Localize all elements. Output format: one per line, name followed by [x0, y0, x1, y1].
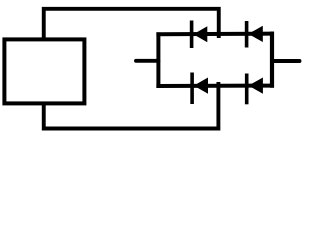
diode D3 (lower-left, pointing left): cathode bar: [190, 73, 194, 105]
diode D3 anode triangle: [194, 78, 208, 94]
wire: right rail of diode bridge: [270, 34, 274, 86]
diode D2 anode triangle: [248, 26, 262, 42]
diode D1 anode triangle: [193, 26, 207, 42]
wire: left rail of diode bridge: [156, 34, 160, 86]
diode D4 anode triangle: [248, 78, 263, 94]
wire: lower branch: [158, 84, 272, 88]
wire: output lead at mid height: [272, 59, 300, 63]
diode D4 (lower-right, pointing left): cathode bar: [245, 74, 249, 105]
component box (left square block): [4, 39, 84, 103]
wire: upper branch: [158, 32, 272, 37]
wire: bottom loop from box bottom, down, right along bottom, up to node between lower diodes: [44, 84, 219, 129]
diode D1 (upper-left, pointing left): cathode bar: [190, 21, 194, 49]
wire: input lead at mid height: [136, 59, 158, 63]
diode D2 (upper-right, pointing left): cathode bar: [245, 21, 249, 48]
wire: top loop from node between upper diodes, left along top, down to box top: [44, 9, 219, 40]
